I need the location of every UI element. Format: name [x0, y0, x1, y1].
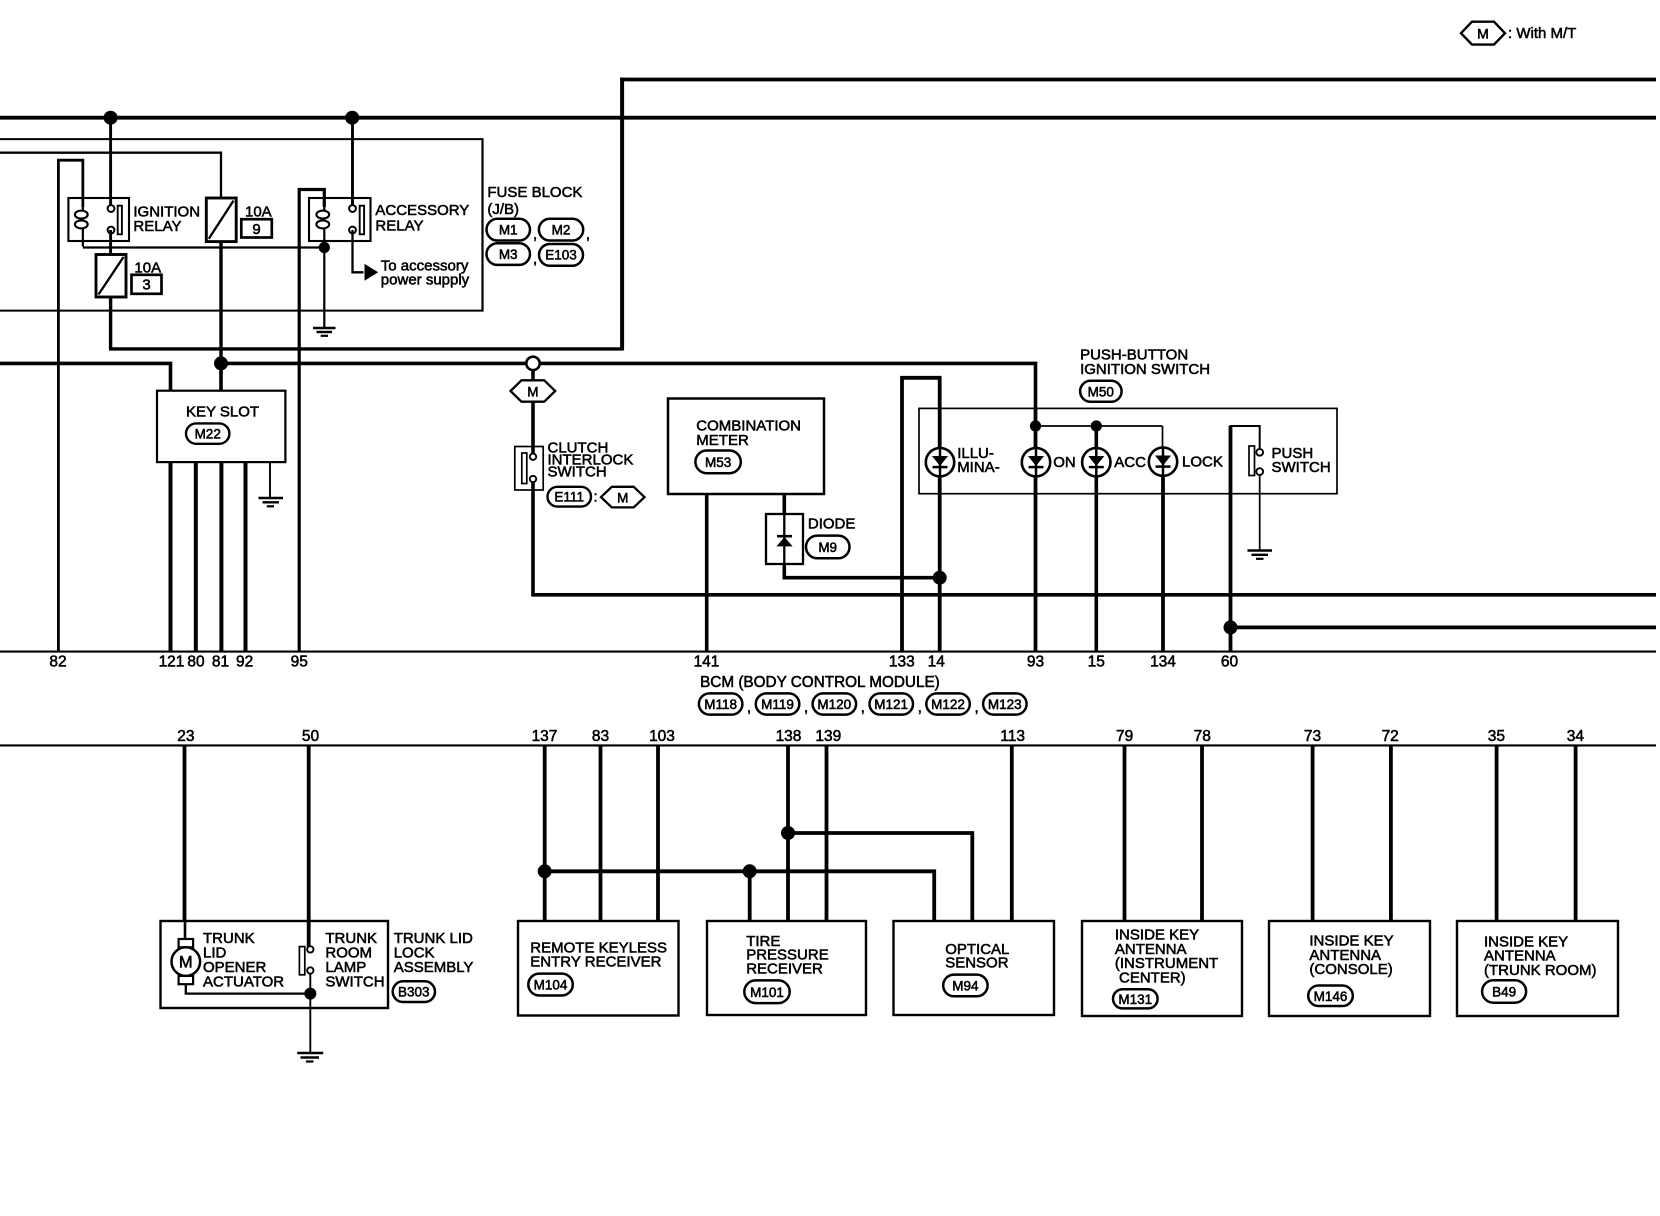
wire fuse 3 to lower run	[109, 297, 112, 349]
svg-text:RELAY: RELAY	[375, 218, 423, 235]
svg-text:B49: B49	[1492, 985, 1516, 1000]
svg-text:ON: ON	[1053, 454, 1076, 471]
svg-text:M94: M94	[952, 979, 979, 994]
svg-text:SWITCH: SWITCH	[325, 973, 384, 990]
fuse block J/B box right border	[481, 138, 483, 312]
inside key antenna (instrument center) box M131	[1082, 921, 1242, 1016]
wire combination meter to diode	[782, 494, 786, 514]
connector M123	[983, 693, 1027, 714]
svg-text:121: 121	[159, 654, 185, 671]
svg-text:FUSE BLOCK: FUSE BLOCK	[487, 184, 582, 201]
wire ignition relay contact to fuse 3	[109, 230, 112, 256]
connector M118	[699, 693, 743, 714]
node open circle connector on bus at x=533	[526, 357, 539, 370]
wire key slot to BCM pin 92	[244, 462, 248, 650]
svg-text:72: 72	[1382, 728, 1399, 745]
clutch interlock switch box E111	[515, 447, 543, 491]
connector E111	[548, 487, 592, 507]
wire lamp switch to ground	[309, 974, 311, 1053]
svg-text:M3: M3	[499, 247, 518, 262]
svg-text:E103: E103	[545, 248, 577, 263]
wire key slot ground stub	[269, 462, 271, 497]
connector M122	[926, 693, 970, 714]
connector M94	[943, 975, 987, 997]
svg-text:139: 139	[815, 728, 841, 745]
trunk room lamp switch plunger bar	[299, 947, 304, 975]
svg-text:M9: M9	[818, 540, 837, 555]
svg-text:ENTRY RECEIVER: ENTRY RECEIVER	[530, 953, 661, 970]
wire pin23 inside box to motor	[184, 921, 187, 939]
node junction dot (1035.5,426)	[1030, 420, 1041, 431]
ground symbol below trunk box	[297, 1052, 323, 1054]
svg-text:M2: M2	[552, 222, 571, 237]
fuse F3 10A box	[96, 255, 126, 298]
wire U-link BCM 133 to illumination LED wire	[902, 378, 940, 651]
svg-text:M104: M104	[534, 978, 568, 993]
svg-text:137: 137	[532, 728, 558, 745]
wire key slot to BCM pin 80	[194, 462, 198, 650]
svg-text:M22: M22	[195, 427, 221, 442]
wire hexagon to clutch interlock switch	[531, 402, 535, 454]
wire key slot to BCM pin 81	[219, 462, 223, 650]
combination meter box M53	[668, 399, 824, 495]
svg-text:81: 81	[212, 654, 229, 671]
connector M146	[1308, 986, 1353, 1007]
svg-text:(TRUNK ROOM): (TRUNK ROOM)	[1484, 962, 1597, 979]
connector M50	[1080, 381, 1122, 402]
connector M9	[806, 536, 850, 559]
remote keyless entry receiver box M104	[518, 921, 679, 1016]
wire clutch switch down to bus y=594.8	[533, 482, 1656, 595]
wire feed bus y=152.7 into fuse 9	[0, 153, 221, 198]
diode symbol	[783, 514, 785, 564]
svg-text:,: ,	[804, 699, 808, 716]
svg-text:10A: 10A	[245, 203, 272, 220]
ground symbol below push switch	[1248, 549, 1273, 551]
svg-text:9: 9	[252, 221, 260, 238]
M hexagon (with M/T) above clutch interlock switch	[511, 380, 556, 401]
wire BCM 113 to optical sensor	[1010, 745, 1014, 921]
wire BCM 139 to tire pressure receiver	[825, 745, 829, 921]
connector M1	[487, 219, 531, 241]
svg-text:83: 83	[592, 728, 609, 745]
node junction dot at x=221 on bus	[214, 356, 228, 370]
svg-text:M50: M50	[1088, 385, 1114, 400]
wire ON LED to BCM pin 93	[1034, 409, 1038, 651]
svg-text:,: ,	[861, 699, 865, 716]
wire push switch feed from BCM pin 60	[1231, 426, 1260, 651]
svg-text:141: 141	[694, 654, 720, 671]
svg-text:LOCK: LOCK	[1182, 454, 1223, 471]
ground symbol below accessory relay	[313, 327, 336, 329]
connector M131	[1113, 989, 1158, 1008]
LED LOCK	[1149, 448, 1177, 476]
svg-text:,: ,	[975, 699, 979, 716]
ignition relay box	[68, 198, 129, 241]
connector M22	[186, 423, 229, 443]
svg-text:35: 35	[1488, 728, 1505, 745]
wire push switch to ground	[1259, 475, 1261, 550]
connector M120	[813, 693, 857, 714]
svg-text:B303: B303	[398, 985, 430, 1000]
trunk lid lock assembly box B303	[161, 921, 389, 1008]
connector M101	[744, 980, 789, 1003]
wire vertical riser x=622 joining both buses to lower bus	[620, 78, 624, 351]
BCM box top border	[0, 651, 1656, 653]
connector M121	[870, 693, 914, 714]
svg-text:15: 15	[1088, 654, 1105, 671]
node junction dot on bus at x=352.2	[345, 111, 359, 125]
connector M3	[487, 243, 531, 265]
svg-text:34: 34	[1567, 728, 1585, 745]
wire accessory relay coil to ground	[323, 228, 325, 327]
svg-text:82: 82	[49, 654, 66, 671]
svg-text:CENTER): CENTER)	[1119, 970, 1186, 987]
svg-text:113: 113	[1000, 728, 1025, 745]
svg-text:95: 95	[291, 654, 308, 671]
wire stub junction to tire pressure receiver	[748, 871, 752, 921]
svg-text:power supply: power supply	[381, 272, 470, 289]
svg-text:IGNITION SWITCH: IGNITION SWITCH	[1080, 361, 1210, 378]
svg-text:78: 78	[1194, 728, 1211, 745]
wire bus y=363.4 main segment to push-button switch	[221, 363, 1036, 409]
accessory relay armature bar	[360, 206, 364, 235]
wire BCM 103 to remote keyless entry receiver	[656, 745, 660, 921]
svg-text:M: M	[179, 954, 193, 972]
svg-text:E111: E111	[554, 490, 584, 505]
svg-text:(CONSOLE): (CONSOLE)	[1309, 961, 1392, 978]
wire from bus dot to ignition relay contact	[109, 118, 112, 206]
svg-text:60: 60	[1221, 654, 1239, 671]
wire top power bus right (y=79.5)	[620, 78, 1656, 82]
svg-text:M123: M123	[988, 697, 1022, 712]
trunk room lamp switch contacts	[307, 946, 313, 952]
svg-text:METER: METER	[696, 432, 749, 449]
node junction dot coil ground	[319, 242, 330, 253]
svg-text:92: 92	[236, 654, 253, 671]
wire fuse 9 branch into key slot	[219, 363, 223, 390]
motor M trunk lid opener actuator	[179, 939, 194, 947]
svg-text:M118: M118	[704, 697, 737, 712]
LED ON	[1022, 448, 1050, 476]
clutch interlock switch plunger bar	[522, 453, 527, 484]
wire BCM 138 to tire pressure receiver	[786, 745, 790, 921]
node junction dot on bus at x=110.6	[104, 111, 118, 125]
connector B49	[1482, 980, 1526, 1003]
svg-text:,: ,	[586, 226, 590, 243]
svg-text:73: 73	[1304, 728, 1321, 745]
clutch interlock switch contacts	[530, 454, 536, 460]
wire inner link y=426 between ON ACC LOCK	[1036, 425, 1163, 427]
svg-text:ACTUATOR: ACTUATOR	[203, 973, 284, 990]
push-button ignition switch box	[919, 408, 1337, 493]
ground symbol below key slot	[259, 497, 284, 499]
svg-text:M: M	[617, 490, 628, 505]
svg-text:103: 103	[649, 728, 675, 745]
inside key antenna (trunk room) box B49	[1457, 921, 1618, 1016]
svg-text:DIODE: DIODE	[808, 516, 856, 533]
push switch plunger bar	[1249, 446, 1255, 476]
svg-text:M: M	[527, 384, 538, 399]
fuse number box 3	[132, 275, 162, 294]
svg-text:SWITCH: SWITCH	[1272, 459, 1331, 476]
svg-text:(J/B): (J/B)	[487, 201, 519, 218]
LED ACC	[1082, 448, 1110, 476]
svg-text:: With M/T: : With M/T	[1508, 25, 1576, 42]
connector M2	[539, 219, 583, 241]
fuse block J/B box bottom border	[0, 310, 483, 312]
svg-text:133: 133	[889, 654, 915, 671]
ignition relay contact pins	[108, 205, 115, 212]
node junction dot (310.3,993.6)	[304, 988, 316, 1000]
node junction dot (1096.3,426)	[1091, 420, 1102, 431]
push switch contacts	[1256, 449, 1263, 456]
inside key antenna (console) box M146	[1269, 921, 1430, 1016]
wire bus y=627.4 from pin60 junction to right edge	[1231, 626, 1657, 630]
svg-text:134: 134	[1150, 654, 1176, 671]
arrow to accessory power supply	[365, 264, 379, 281]
LED illumination	[926, 448, 954, 476]
wire BCM 137 to remote keyless entry receiver	[543, 745, 547, 921]
svg-text:23: 23	[177, 728, 194, 745]
tire pressure receiver box M101	[707, 921, 866, 1015]
svg-text:M119: M119	[761, 697, 794, 712]
svg-text:KEY SLOT: KEY SLOT	[186, 403, 259, 420]
wire BCM 79 to inside key antenna instrument center	[1123, 745, 1127, 921]
svg-text:80: 80	[187, 654, 205, 671]
svg-text:3: 3	[142, 277, 150, 294]
diode box M9	[766, 514, 803, 564]
svg-text:M146: M146	[1314, 989, 1348, 1004]
connector M119	[756, 693, 800, 714]
svg-text:ACC: ACC	[1114, 454, 1146, 471]
wire BCM 78 to inside key antenna instrument center	[1200, 745, 1204, 921]
svg-text:M122: M122	[931, 697, 965, 712]
wire open circle to M hexagon	[531, 370, 535, 381]
wire diode to illumination LED line	[784, 564, 939, 578]
svg-text:50: 50	[302, 728, 320, 745]
M/T option hexagon symbol (legend)	[1461, 22, 1505, 45]
svg-text:SWITCH: SWITCH	[548, 463, 607, 480]
svg-text:,: ,	[747, 699, 751, 716]
wire horizontal run y=348.9 from fuse 3 to riser	[109, 347, 622, 350]
svg-text:BCM (BODY CONTROL MODULE): BCM (BODY CONTROL MODULE)	[700, 674, 940, 691]
svg-text::: :	[594, 489, 598, 506]
optical sensor box M94	[894, 921, 1055, 1015]
svg-text:ASSEMBLY: ASSEMBLY	[394, 959, 474, 976]
wire LOCK LED to BCM pin 134	[1162, 426, 1164, 448]
svg-text:M53: M53	[705, 455, 731, 470]
BCM box bottom border	[0, 744, 1656, 746]
accessory relay coil	[323, 198, 325, 211]
wire BCM 35 to inside key antenna trunk room	[1495, 745, 1499, 921]
node junction dot (749.7,871.3)	[743, 864, 757, 878]
ignition relay armature bar	[118, 206, 122, 235]
wire BCM 50 to trunk room lamp switch	[307, 745, 311, 947]
svg-text:M121: M121	[874, 697, 908, 712]
wire from bus dot to accessory relay contact	[351, 118, 354, 206]
svg-text:79: 79	[1116, 728, 1133, 745]
fuse F9 10A box	[206, 198, 236, 242]
wire motor to lamp switch junction	[186, 984, 310, 993]
M hexagon next to E111	[601, 487, 645, 508]
svg-text:M: M	[1477, 25, 1489, 41]
wire BCM 72 to inside key antenna console	[1389, 745, 1393, 921]
key slot box M22	[157, 391, 285, 462]
svg-text:RECEIVER: RECEIVER	[746, 961, 823, 978]
accessory relay box	[309, 198, 371, 241]
wire from ignition relay coil to BCM pin 82	[58, 160, 82, 650]
svg-text:14: 14	[928, 654, 946, 671]
node junction dot (1230.5,627.4)	[1224, 620, 1238, 634]
svg-text:M101: M101	[750, 985, 784, 1000]
wire combination meter to BCM pin 141	[705, 494, 709, 651]
svg-text:,: ,	[533, 226, 537, 243]
wire accessory contact to arrow	[353, 230, 364, 272]
svg-text:,: ,	[918, 699, 922, 716]
wire BCM 83 to remote keyless entry receiver	[599, 745, 603, 921]
wire ACC LED to BCM pin 15	[1095, 426, 1099, 651]
connector M53	[695, 451, 740, 474]
connector B303	[393, 981, 435, 1002]
wire key slot to BCM pin 121	[169, 462, 173, 650]
wire link from pin137 to optical sensor (y=871.3)	[545, 871, 935, 921]
ignition relay coil	[82, 198, 84, 211]
wire bus y=363.4 left segment into key slot	[0, 363, 171, 390]
svg-text:RELAY: RELAY	[133, 218, 181, 235]
fuse number box 9	[241, 219, 271, 237]
connector M104	[528, 974, 573, 996]
svg-text:138: 138	[776, 728, 802, 745]
wire relay coil ground link y=247.5	[83, 246, 324, 248]
wire fuse 9 down to key-slot bus	[219, 242, 222, 364]
svg-text:SENSOR: SENSOR	[945, 955, 1009, 972]
node junction dot (788,833)	[781, 826, 795, 840]
accessory relay contact pins	[349, 205, 356, 212]
svg-text:M131: M131	[1118, 992, 1152, 1007]
wire accessory coil feed from BCM pin 95 riser	[299, 190, 324, 651]
svg-text:93: 93	[1027, 654, 1044, 671]
svg-text:M120: M120	[817, 697, 851, 712]
svg-text:,: ,	[533, 250, 537, 267]
svg-text:MINA-: MINA-	[957, 459, 1000, 476]
node junction dot (544.7,871.3)	[538, 864, 552, 878]
wire BCM 23 to trunk lid opener actuator	[183, 745, 187, 921]
node junction dot at x=939.7 y=577.7	[933, 571, 947, 585]
wire main power bus (y=117.7)	[0, 116, 1656, 120]
wire link from pin138 to optical sensor (y=833)	[788, 833, 972, 921]
connector E103	[539, 244, 583, 266]
fuse block J/B box top border	[0, 138, 483, 140]
svg-text:M1: M1	[499, 222, 518, 237]
wire BCM 34 to inside key antenna trunk room	[1574, 745, 1578, 921]
wire BCM 73 to inside key antenna console	[1311, 745, 1315, 921]
